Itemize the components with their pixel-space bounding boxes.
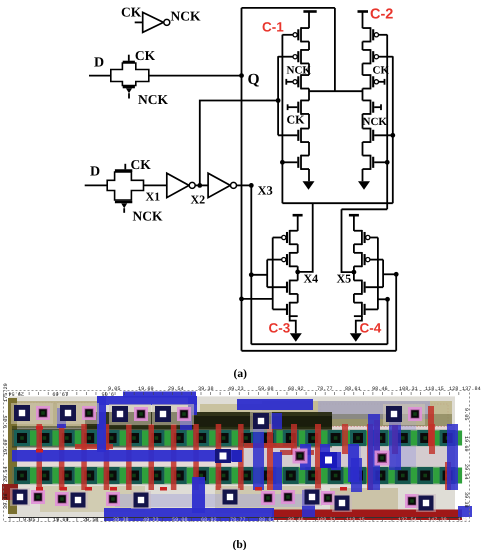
layout dark overlay row1 left2 bbox=[12, 426, 332, 430]
svg-text:19.69: 19.69 bbox=[52, 391, 68, 397]
wire C-2 inner gates vertical bbox=[392, 56, 394, 203]
svg-text:(a): (a) bbox=[234, 368, 248, 380]
svg-text:49.23: 49.23 bbox=[143, 517, 159, 523]
layout dark diffusion top smear right bbox=[332, 414, 452, 426]
nmos C-2 N1 (NCK) bbox=[363, 100, 382, 115]
svg-text:9.05: 9.05 bbox=[102, 391, 114, 397]
node X4 junction bbox=[295, 270, 300, 275]
layout khaki bottom-mid bbox=[215, 486, 315, 513]
layout blue via mid 1 bbox=[215, 449, 231, 463]
junction C-2 N2 gate bbox=[390, 133, 395, 138]
svg-text:NCK: NCK bbox=[133, 209, 163, 224]
svg-text:19.69: 19.69 bbox=[463, 436, 469, 452]
layout red horizontal 2 bbox=[244, 443, 294, 448]
layout overall wash bbox=[9, 397, 455, 517]
svg-text:X4: X4 bbox=[304, 272, 319, 286]
VDD rail C-1 bbox=[303, 12, 316, 29]
wire right rail R1 bbox=[395, 274, 397, 351]
wire C-2 drain j5 bbox=[362, 142, 364, 156]
layout bottom ruler line bbox=[8, 517, 462, 519]
pmos C-1 P3 (NCK) bbox=[286, 74, 309, 89]
layout lavender mid bbox=[349, 446, 361, 482]
svg-text:147.38: 147.38 bbox=[428, 517, 447, 523]
svg-text:C-4: C-4 bbox=[360, 321, 382, 336]
svg-text:175.29: 175.29 bbox=[3, 383, 9, 402]
pmos C-4 P2 bbox=[354, 252, 383, 267]
wire C-3 gate line V1 bbox=[272, 238, 274, 310]
layout khaki top-right bbox=[262, 401, 452, 426]
node X2 junction bbox=[197, 183, 202, 188]
wire C-1 drain j4 bbox=[308, 114, 310, 129]
layout bottom ruler numbers bbox=[23, 517, 467, 523]
wire C-2 to ground bbox=[362, 169, 364, 181]
wire C-4 outer gates to rail R2 bbox=[378, 298, 388, 300]
layout blue verticals tall right bbox=[180, 413, 458, 490]
layout blue verticals mid-right bbox=[273, 444, 359, 490]
layout blue ring top-left bbox=[57, 392, 197, 453]
nmos C-1 N1 (CK) bbox=[288, 100, 309, 115]
svg-text:D: D bbox=[94, 56, 104, 71]
svg-text:137.84: 137.84 bbox=[462, 386, 481, 392]
layout red vertical right a bbox=[428, 406, 434, 446]
layout red dashed outline right bbox=[320, 404, 448, 426]
nmos C-1 N3 bbox=[282, 155, 309, 170]
layout blue bottom right stub bbox=[458, 506, 472, 517]
svg-text:C-3: C-3 bbox=[269, 321, 291, 336]
wire C-1 inner gates vertical bbox=[277, 56, 279, 135]
svg-text:9.05: 9.05 bbox=[463, 408, 469, 420]
svg-text:19.69: 19.69 bbox=[138, 386, 154, 392]
wire D to TG2 bbox=[85, 184, 108, 186]
svg-text:137.54: 137.54 bbox=[398, 517, 417, 523]
node X3 junction bbox=[249, 183, 254, 188]
layout dark diffusion core bar bbox=[190, 416, 332, 427]
pmos C-3 P1 bbox=[273, 230, 298, 245]
svg-text:19.69: 19.69 bbox=[3, 439, 9, 455]
layout dark diffusion top smear bbox=[85, 412, 332, 429]
wire inner bottom bbox=[251, 343, 387, 345]
wire C-3 to ground bbox=[290, 316, 296, 333]
wire C-3 drain j1 bbox=[297, 244, 299, 253]
nmos C-2 N3 bbox=[363, 155, 388, 170]
layout red horizontal 1 bbox=[75, 444, 113, 449]
layout blue mid bus bbox=[12, 450, 240, 462]
ground C-3 bbox=[290, 333, 302, 342]
node X5 junction bbox=[352, 270, 357, 275]
ground C-2 bbox=[358, 181, 370, 190]
wire C-2 drain j2 bbox=[362, 63, 364, 75]
layout row2 backing strip bbox=[12, 467, 450, 485]
layout tiny red labels bbox=[36, 426, 347, 491]
svg-text:78.77: 78.77 bbox=[317, 386, 333, 392]
layout blue via mid 2 bbox=[320, 452, 337, 468]
svg-text:128: 128 bbox=[449, 386, 458, 392]
pmos C-1 P2 bbox=[278, 49, 309, 64]
layout red bus bottom bbox=[272, 510, 462, 521]
svg-text:Q: Q bbox=[248, 71, 260, 88]
svg-text:CK: CK bbox=[373, 65, 390, 77]
nmos C-3 N1 bbox=[267, 280, 298, 295]
wire right rail R2 bbox=[387, 299, 389, 344]
junction C-2 N3 gate bbox=[385, 160, 390, 165]
wire left rail L2 (X3 feedback) bbox=[250, 185, 252, 344]
wire TG1 to node Q bbox=[149, 75, 242, 77]
wire C-3 gate line V2 bbox=[266, 260, 268, 288]
svg-text:59.08: 59.08 bbox=[172, 517, 188, 523]
svg-text:(b): (b) bbox=[233, 539, 247, 550]
wire Q rail to C-3 outer gates bbox=[242, 298, 273, 300]
svg-text:118.15: 118.15 bbox=[346, 517, 365, 523]
transmission gate TG2 bbox=[107, 164, 143, 213]
layout top ruler numbers bbox=[108, 386, 481, 392]
layout purple mid boxes bbox=[293, 449, 390, 466]
layout top-left rotated numbers bbox=[8, 391, 114, 397]
pmos C-2 P1 bbox=[363, 27, 388, 42]
wire C-1 drain j1 bbox=[308, 42, 310, 51]
layout transistor row 2 (contacts) bbox=[14, 467, 462, 484]
nmos C-4 N1 bbox=[354, 280, 383, 295]
layout ruler ticks bbox=[10, 392, 459, 522]
wire C-2 drain j4 bbox=[362, 114, 364, 129]
ground C-1 bbox=[303, 181, 315, 190]
wire C-4 drain j2 (X5) bbox=[353, 266, 355, 280]
layout mid band wash right bbox=[240, 447, 455, 466]
inverter U3 bbox=[208, 173, 236, 197]
junction C-1 N3 gate bbox=[280, 160, 285, 165]
svg-text:29.54: 29.54 bbox=[3, 466, 9, 482]
layout red horizontal 3 bbox=[280, 450, 314, 455]
layout top contact clusters bbox=[11, 403, 425, 432]
wire left rail L1 (Q feedback) bbox=[241, 8, 243, 351]
svg-text:9.05: 9.05 bbox=[3, 416, 9, 428]
wire C-3 drain j2 (X4) bbox=[297, 266, 299, 280]
layout pale pink mid band bbox=[9, 447, 455, 466]
svg-text:108.31: 108.31 bbox=[317, 517, 336, 523]
layout transistor row 1 (contacts) bbox=[14, 430, 462, 446]
svg-text:NCK: NCK bbox=[363, 116, 388, 128]
wire D to TG1 bbox=[89, 75, 111, 77]
wire U3 output to X3 bbox=[237, 184, 252, 186]
svg-text:X1: X1 bbox=[146, 190, 161, 204]
svg-text:9.05: 9.05 bbox=[23, 517, 35, 523]
layout khaki bottom-left bbox=[40, 486, 145, 512]
layout blue box mid 3 bbox=[232, 450, 242, 462]
wire C-4 drain j1 bbox=[353, 244, 355, 253]
nmos C-4 N2 bbox=[354, 302, 378, 317]
svg-text:98.46: 98.46 bbox=[372, 386, 388, 392]
wire C-4 drain j3 bbox=[353, 294, 355, 303]
pmos C-1 P1 bbox=[282, 27, 309, 42]
wire C-2 drain j1 bbox=[362, 42, 364, 51]
wire drop to X4 bbox=[298, 203, 313, 272]
svg-text:88.61: 88.61 bbox=[259, 517, 275, 523]
wire cross-couple line2 bbox=[342, 208, 388, 210]
wire C-4 gate line V2' bbox=[382, 260, 384, 288]
svg-text:CK: CK bbox=[121, 5, 142, 20]
wire frame right drop to storage node bbox=[334, 8, 336, 91]
svg-text:19.69: 19.69 bbox=[53, 517, 69, 523]
layout dark overlay row1 left bbox=[12, 429, 332, 448]
junction R2 lineB' bbox=[385, 297, 390, 302]
VDD rail C-3 bbox=[293, 215, 303, 231]
svg-text:39.38: 39.38 bbox=[198, 386, 214, 392]
layout bottom contact clusters bbox=[10, 488, 436, 512]
wire X2 feedback to C-1 bbox=[200, 101, 278, 186]
pmos C-2 P3 (CK) bbox=[363, 74, 385, 89]
wire C-1 drain j5 bbox=[308, 142, 310, 156]
wire outer bottom bbox=[242, 350, 397, 352]
VDD rail C-4 bbox=[349, 215, 359, 231]
junction X2-feedback at C-1 gate line bbox=[276, 98, 281, 103]
svg-text:39.38: 39.38 bbox=[3, 493, 9, 509]
svg-text:68.92: 68.92 bbox=[201, 517, 217, 523]
wire C-4 to ground bbox=[356, 316, 362, 333]
layout red blob bottom-left bbox=[2, 484, 18, 500]
nmos C-2 N2 bbox=[363, 128, 393, 143]
svg-text:175: 175 bbox=[458, 517, 467, 523]
svg-text:D: D bbox=[90, 165, 100, 180]
transmission gate TG1 bbox=[111, 55, 149, 99]
svg-text:C-1: C-1 bbox=[262, 20, 284, 35]
svg-text:29.54: 29.54 bbox=[168, 386, 184, 392]
layout row1 backing strip bbox=[12, 430, 450, 447]
svg-text:68.92: 68.92 bbox=[288, 386, 304, 392]
layout olive left column bbox=[8, 398, 17, 514]
pmos C-2 P2 bbox=[363, 49, 393, 64]
svg-text:NCK: NCK bbox=[138, 92, 168, 107]
VDD rail C-2 bbox=[358, 12, 369, 29]
svg-text:108.31: 108.31 bbox=[399, 386, 418, 392]
svg-text:39.38: 39.38 bbox=[113, 517, 129, 523]
layout lavender band top-right bbox=[318, 401, 430, 419]
wire X1 bbox=[144, 184, 167, 186]
svg-text:X5: X5 bbox=[337, 272, 352, 286]
svg-text:NCK: NCK bbox=[171, 9, 201, 24]
inverter U2 bbox=[167, 173, 195, 197]
wire C-2 outer gates vertical bbox=[386, 35, 388, 210]
layout khaki bottom-right bbox=[330, 488, 398, 515]
svg-text:98.46: 98.46 bbox=[288, 517, 304, 523]
svg-text:C-2: C-2 bbox=[370, 7, 393, 23]
nmos C-3 N2 bbox=[273, 302, 298, 317]
svg-text:78.77: 78.77 bbox=[230, 517, 246, 523]
layout red vertical right b bbox=[374, 420, 380, 454]
svg-text:X2: X2 bbox=[191, 193, 206, 207]
svg-text:CK: CK bbox=[287, 113, 306, 127]
svg-text:CK: CK bbox=[131, 157, 152, 172]
layout blue top-right bar bbox=[237, 399, 313, 410]
svg-text:88.61: 88.61 bbox=[345, 386, 361, 392]
junction L2 lineA bbox=[249, 272, 254, 277]
layout panel background bbox=[0, 385, 482, 537]
svg-text:29.54: 29.54 bbox=[83, 517, 99, 523]
layout cell background bbox=[9, 396, 455, 518]
node Q junction bbox=[239, 73, 244, 78]
wire C-1 drain j2 bbox=[308, 63, 310, 75]
svg-text:39.38: 39.38 bbox=[463, 492, 469, 508]
junction L1 lineB bbox=[239, 297, 244, 302]
wire storage node between C-1 and C-2 bbox=[309, 90, 363, 92]
ground C-4 bbox=[350, 333, 362, 342]
wire top edge of latch frame bbox=[242, 7, 335, 9]
nmos C-1 N2 bbox=[278, 128, 309, 143]
layout right rotated numbers bbox=[463, 408, 469, 508]
layout nwell khaki top-left bbox=[9, 401, 97, 428]
layout red dashed outline left bbox=[12, 403, 92, 427]
layout pale band rows bbox=[9, 425, 455, 431]
pmos C-4 P1 bbox=[354, 230, 378, 245]
svg-text:29.54: 29.54 bbox=[8, 391, 24, 397]
layout lavender vertical right bbox=[396, 415, 416, 471]
wire cross-couple bottom line1 bbox=[282, 202, 392, 204]
junction R1 lineA' bbox=[394, 272, 399, 277]
pmos C-3 P2 bbox=[267, 252, 298, 267]
svg-text:118.15: 118.15 bbox=[425, 386, 444, 392]
svg-text:29.54: 29.54 bbox=[463, 464, 469, 480]
layout khaki top-mid bbox=[200, 404, 262, 427]
svg-text:59.08: 59.08 bbox=[258, 386, 274, 392]
wire C-1 to ground bbox=[308, 169, 310, 181]
wire C-4 inner gates to rail R1 bbox=[383, 273, 396, 275]
layout blue bottom L wire bbox=[104, 458, 362, 521]
wire C-1 drain j3 (output) bbox=[308, 89, 310, 101]
wire C-1 outer gates vertical bbox=[281, 35, 283, 204]
svg-text:CK: CK bbox=[135, 48, 156, 63]
wire X3 rail to C-3 inner gates bbox=[251, 274, 267, 276]
wire C-4 gate line V1' bbox=[377, 238, 379, 310]
layout poly red verticals bbox=[37, 424, 452, 490]
svg-text:49.23: 49.23 bbox=[228, 386, 244, 392]
inverter U1 (CK to NCK) bbox=[135, 12, 170, 32]
svg-text:X3: X3 bbox=[258, 184, 273, 198]
layout dashed frame bbox=[4, 391, 470, 522]
layout lavender bottom band bbox=[115, 494, 310, 507]
wire drop to X5 bbox=[342, 209, 354, 272]
layout left rotated numbers bbox=[3, 383, 9, 509]
wire C-2 drain j3 (output) bbox=[362, 89, 364, 101]
wire C-3 drain j3 bbox=[297, 294, 299, 303]
wire X2 bbox=[195, 184, 208, 186]
